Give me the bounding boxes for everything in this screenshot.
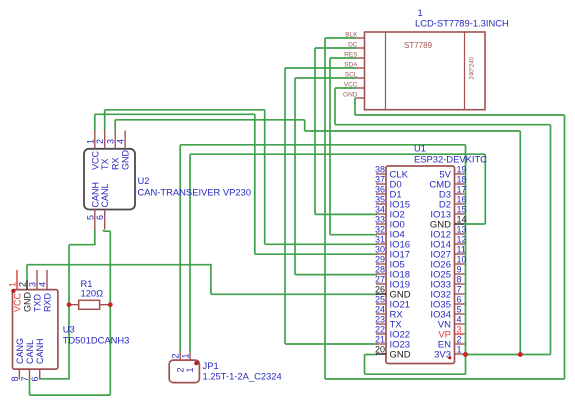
U3 pin 2 GND	[26, 280, 28, 290]
ESP32 pin 12 IO14	[455, 243, 465, 245]
svg-text:37: 37	[375, 175, 385, 185]
wire bottom loop horizontal	[365, 373, 466, 375]
svg-text:VCC: VCC	[344, 82, 358, 89]
ESP32 pin 32 IO4	[376, 233, 386, 235]
svg-text:JP1: JP1	[203, 360, 219, 371]
wire U2 pin3 vertical	[114, 120, 116, 131]
ESP32 module U1 outline	[386, 166, 455, 364]
wire vertical x265	[264, 110, 266, 245]
svg-text:30: 30	[375, 245, 385, 255]
svg-text:240*240: 240*240	[470, 56, 476, 79]
wire to ESP pin 31	[265, 243, 377, 245]
JP1 pin 1	[189, 352, 191, 361]
svg-text:13: 13	[457, 225, 467, 235]
ESP32 pin 5 IO34	[455, 313, 465, 315]
U2 pin 3 RX	[114, 131, 116, 149]
svg-text:8: 8	[10, 376, 20, 381]
svg-text:6: 6	[30, 376, 40, 381]
svg-text:CANH: CANH	[35, 338, 45, 364]
wire U2 pin6 vertical	[102, 230, 104, 231]
svg-text:CANG: CANG	[15, 338, 25, 364]
ESP32 pin 14 GND	[455, 223, 465, 225]
svg-text:RX: RX	[111, 157, 121, 170]
svg-text:29: 29	[375, 255, 385, 265]
wire to ESP pin 32	[330, 234, 377, 236]
wire CANL jog	[103, 230, 110, 232]
ESP32 pin 27 IO19	[376, 283, 386, 285]
LCD pin GND	[355, 97, 365, 99]
svg-text:6: 6	[457, 295, 462, 305]
LCD inner right divider	[464, 32, 466, 110]
svg-text:TD501DCANH3: TD501DCANH3	[63, 335, 130, 346]
svg-text:31: 31	[375, 235, 385, 245]
svg-text:VCC: VCC	[90, 150, 100, 170]
svg-text:36: 36	[375, 185, 385, 195]
wire SDA vertical	[284, 68, 286, 344]
svg-text:RXD: RXD	[43, 292, 53, 312]
wire 3V3 net horizontal	[465, 354, 551, 356]
ESP32 pin 24 RX	[376, 313, 386, 315]
svg-text:CANL: CANL	[25, 340, 35, 364]
svg-text:TXD: TXD	[33, 293, 43, 312]
wire U2 pin2 vertical	[104, 110, 106, 131]
svg-text:10: 10	[457, 255, 467, 265]
svg-text:DC: DC	[348, 42, 358, 49]
wire LCD SCL horizontal	[295, 77, 356, 79]
wire vertical x520	[519, 131, 521, 355]
svg-text:21: 21	[375, 335, 385, 345]
wire to ESP pin 26	[211, 293, 377, 295]
wire to ESP pin 28	[295, 274, 377, 276]
ESP32 pin 10 IO26	[455, 263, 465, 265]
ESP32 pin 6 IO35	[455, 303, 465, 305]
ESP32 pin 7 IO32	[455, 293, 465, 295]
svg-text:28: 28	[375, 265, 385, 275]
ESP32 pin 2 EN	[455, 343, 465, 345]
LCD pin DC	[355, 47, 365, 49]
ESP32 pin 9 IO25	[455, 273, 465, 275]
LCD pin SDA	[355, 67, 365, 69]
wire LCD VCC horizontal	[335, 87, 356, 89]
ESP32 pin 34 IO2	[376, 213, 386, 215]
svg-text:ST7789: ST7789	[404, 41, 433, 50]
svg-text:8: 8	[457, 275, 462, 285]
wire U2 pin5 vertical	[94, 230, 96, 245]
svg-text:15: 15	[457, 205, 467, 215]
wire LCD GND vertical	[354, 98, 356, 115]
wire U3 pin7 vertical	[29, 379, 31, 395]
U2 pin 5 CANH	[94, 210, 96, 230]
wire LCD SDA horizontal	[285, 67, 356, 69]
svg-text:4: 4	[38, 282, 48, 287]
svg-text:SCL: SCL	[345, 72, 358, 79]
wire vertical x485	[484, 154, 486, 224]
svg-text:2: 2	[18, 282, 28, 287]
svg-text:35: 35	[375, 195, 385, 205]
svg-text:38: 38	[375, 165, 385, 175]
svg-text:1: 1	[185, 367, 195, 372]
ESP32 pin 8 IO33	[455, 283, 465, 285]
svg-text:4: 4	[457, 315, 462, 325]
wire U2-VCC net horizontal	[95, 113, 255, 115]
svg-text:5: 5	[85, 215, 95, 220]
ESP32 pin 15 IO13	[455, 213, 465, 215]
JP1 origin dot	[194, 361, 198, 365]
wire JP1 pin1 vertical	[189, 154, 191, 351]
wire U3 pin2 vertical	[26, 265, 28, 280]
R1 left lead	[69, 304, 79, 306]
ESP32 origin dot	[448, 356, 451, 359]
LCD inner left divider	[385, 32, 387, 110]
wire to ESP pin 34	[315, 213, 377, 215]
wire jog vertical x305	[304, 120, 306, 131]
ESP32 pin 21 IO23	[376, 343, 386, 345]
U3 pin 7 CANL	[29, 369, 31, 379]
junction dot R1 right	[108, 302, 113, 307]
ESP32 pin 37 D0	[376, 183, 386, 185]
LCD pin BLK	[355, 37, 365, 39]
R1 right lead	[100, 304, 111, 306]
svg-text:1: 1	[85, 139, 95, 144]
svg-text:26: 26	[375, 285, 385, 295]
svg-text:17: 17	[457, 185, 467, 195]
svg-text:GND: GND	[343, 92, 358, 99]
svg-text:VCC: VCC	[13, 292, 23, 312]
svg-text:6: 6	[95, 215, 105, 220]
wire U3-CANH horizontal	[40, 378, 70, 380]
svg-text:1: 1	[457, 345, 462, 355]
svg-text:U1: U1	[414, 143, 426, 154]
LCD module 1 LCD-ST7789-1.3INCH outline	[365, 32, 486, 110]
wire ESP pin14 GND horizontal	[465, 223, 486, 225]
U2 pin 1 VCC	[94, 131, 96, 149]
svg-text:CAN-TRANSEIVER VP230: CAN-TRANSEIVER VP230	[138, 187, 252, 198]
ESP32 pin 3 VP	[455, 333, 465, 335]
ESP32 pin 30 IO17	[376, 253, 386, 255]
ESP32 pin 29 IO5	[376, 263, 386, 265]
wire JP1 pin2 vertical	[179, 145, 181, 352]
LCD pin VCC	[355, 87, 365, 89]
svg-text:22: 22	[375, 325, 385, 335]
U2 pin 4 GND	[124, 131, 126, 149]
ESP32 pin 19 5V	[455, 173, 465, 175]
svg-text:5: 5	[457, 305, 462, 315]
svg-text:34: 34	[375, 205, 385, 215]
LCD pin RES	[355, 57, 365, 59]
svg-text:2: 2	[457, 335, 462, 345]
ESP32 pin 23 TX	[376, 323, 386, 325]
svg-text:2: 2	[95, 139, 105, 144]
wire U2-RX net horizontal	[115, 119, 305, 121]
svg-text:GND: GND	[121, 150, 131, 171]
svg-text:18: 18	[457, 175, 467, 185]
ESP32 pin 16 D2	[455, 203, 465, 205]
ESP32 pin 35 IO15	[376, 203, 386, 205]
svg-text:3: 3	[106, 139, 116, 144]
svg-text:3: 3	[28, 282, 38, 287]
svg-text:33: 33	[375, 215, 385, 225]
svg-text:CANH: CANH	[90, 182, 100, 208]
wire LCD BLK horizontal	[325, 37, 356, 39]
junction dot R1 left	[67, 302, 72, 307]
wire LCD DC horizontal	[315, 47, 356, 49]
U3 origin dot	[11, 289, 15, 293]
svg-text:11: 11	[457, 245, 466, 255]
svg-text:25: 25	[375, 295, 385, 305]
svg-text:BLK: BLK	[345, 32, 358, 39]
svg-text:CANL: CANL	[100, 183, 110, 207]
wire vertical x564	[564, 115, 566, 379]
LCD pin SCL	[355, 77, 365, 79]
wire U2 pin1 vertical	[94, 114, 96, 130]
svg-text:SDA: SDA	[344, 62, 358, 69]
svg-text:120Ω: 120Ω	[81, 288, 104, 299]
ESP32 pin 38 CLK	[376, 173, 386, 175]
U3 pin 6 CANH	[39, 369, 41, 379]
svg-text:9: 9	[457, 265, 462, 275]
wire CANH vertical	[68, 245, 70, 379]
wire LCD RES horizontal	[330, 57, 356, 59]
wire from ESP pin 20	[365, 354, 378, 356]
svg-text:1: 1	[418, 7, 423, 18]
connector JP1 outline	[169, 360, 199, 383]
ESP32 pin 20 GND	[376, 353, 386, 355]
ESP32 pin 26 GND	[376, 293, 386, 295]
wire vertical x255	[254, 114, 256, 254]
ESP32 pin 28 IO18	[376, 273, 386, 275]
svg-text:12: 12	[457, 235, 467, 245]
svg-text:20: 20	[375, 345, 385, 355]
svg-text:24: 24	[375, 305, 385, 315]
resistor R1 body	[79, 300, 100, 309]
JP1 pin 2	[179, 352, 181, 361]
wire BLK-GND bottom horizontal	[325, 378, 565, 380]
ESP32 pin 1 3V3	[455, 353, 465, 355]
svg-text:RES: RES	[344, 52, 358, 59]
CAN isolator U3 outline	[13, 290, 58, 370]
wire CANL vertical	[109, 231, 111, 395]
svg-text:GND: GND	[23, 292, 33, 313]
wire U3-GND net horizontal	[27, 264, 212, 266]
svg-text:4: 4	[116, 139, 126, 144]
wire RX net continuation horizontal	[305, 130, 521, 132]
svg-text:TX: TX	[100, 158, 110, 170]
wire CANH jog horizontal	[69, 244, 96, 246]
wire LCD-VCC net horizontal	[335, 124, 551, 126]
ESP32 pin 11 IO27	[455, 253, 465, 255]
wire U3-CANL horizontal	[30, 394, 111, 396]
svg-text:19: 19	[457, 165, 467, 175]
svg-text:7: 7	[457, 285, 462, 295]
U3 pin 8 CANG	[18, 369, 20, 379]
wire GND route vertical	[210, 265, 212, 295]
svg-text:U3: U3	[63, 324, 75, 335]
svg-text:23: 23	[375, 315, 385, 325]
U3 pin 1 VCC	[16, 270, 18, 290]
wire RES vertical	[329, 58, 331, 235]
svg-text:1: 1	[181, 353, 191, 358]
ESP32 pin 33 IO0	[376, 223, 386, 225]
svg-text:32: 32	[375, 225, 385, 235]
wire U2-TX net horizontal	[105, 109, 265, 111]
wire BLK vertical	[324, 38, 326, 379]
U2 pin 6 CANL	[104, 210, 106, 230]
junction dot 3V3 right	[518, 352, 523, 357]
svg-text:2: 2	[171, 353, 181, 358]
ESP32 pin 4 VN	[455, 323, 465, 325]
ESP32 pin 31 IO16	[376, 243, 386, 245]
svg-text:3: 3	[457, 325, 462, 335]
ESP32 pin 18 CMD	[455, 183, 465, 185]
U2 pin 2 TX	[104, 131, 106, 149]
svg-text:ESP32-DEVKITC: ESP32-DEVKITC	[414, 154, 487, 165]
svg-text:2: 2	[175, 367, 185, 372]
ESP32 pin 22 IO22	[376, 333, 386, 335]
svg-text:U2: U2	[138, 175, 150, 186]
wire LCD-GND net horizontal	[355, 114, 565, 116]
svg-text:GND: GND	[390, 350, 411, 361]
svg-text:3V3: 3V3	[434, 350, 451, 361]
svg-text:27: 27	[375, 275, 385, 285]
wire DC vertical	[314, 48, 316, 214]
junction dot 3V3 left	[463, 352, 468, 357]
svg-text:1: 1	[8, 282, 18, 287]
wire vertical x465	[465, 145, 467, 374]
ESP32 pin 25 IO21	[376, 303, 386, 305]
wire pin20 loop vertical	[364, 355, 366, 375]
wire vertical x550	[550, 125, 552, 355]
CAN transceiver U2 outline	[84, 149, 135, 210]
wire to ESP pin 30	[255, 253, 377, 255]
U3 pin 4 RXD	[46, 270, 48, 290]
ESP32 pin 17 D3	[455, 193, 465, 195]
wire to ESP pin 21	[285, 343, 377, 345]
svg-text:7: 7	[20, 376, 30, 381]
wire LCD VCC vertical	[334, 88, 336, 125]
svg-text:LCD-ST7789-1.3INCH: LCD-ST7789-1.3INCH	[415, 18, 509, 29]
svg-text:16: 16	[457, 195, 467, 205]
U3 pin 3 TXD	[36, 270, 38, 290]
wire JP1-pin1 net horizontal	[190, 153, 485, 155]
wire SCL vertical	[294, 78, 296, 275]
svg-text:1.25T-1-2A_C2324: 1.25T-1-2A_C2324	[203, 371, 282, 382]
wire JP1-pin2 net horizontal	[180, 144, 465, 146]
ESP32 pin 36 D1	[376, 193, 386, 195]
svg-text:14: 14	[457, 215, 467, 225]
ESP32 pin 13 IO12	[455, 233, 465, 235]
